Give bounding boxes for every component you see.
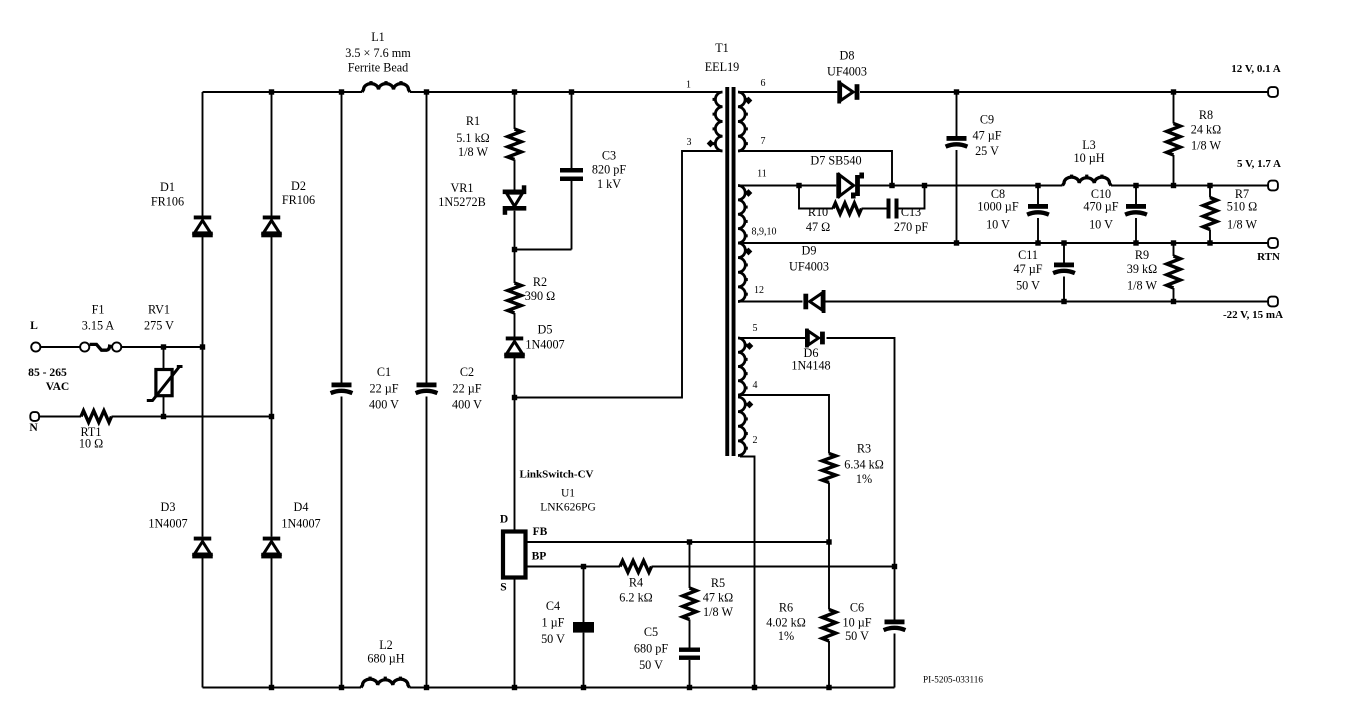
svg-text:24 kΩ: 24 kΩ: [1191, 123, 1221, 137]
svg-text:D8: D8: [840, 49, 855, 63]
wire: [689, 620, 691, 648]
label L2 value: [367, 638, 404, 666]
wire: [1063, 243, 1065, 263]
wire: [827, 338, 895, 620]
svg-text:D: D: [500, 514, 508, 526]
label C3 value: [592, 149, 626, 192]
capacitor C10: [1125, 204, 1147, 215]
svg-text:6.2 kΩ: 6.2 kΩ: [619, 591, 652, 605]
svg-text:5.1 kΩ: 5.1 kΩ: [456, 131, 489, 145]
svg-text:C4: C4: [546, 599, 560, 613]
svg-text:47 Ω: 47 Ω: [806, 220, 830, 234]
svg-text:50 V: 50 V: [1016, 279, 1040, 293]
wire: [1037, 186, 1039, 205]
label R5 value: [703, 576, 734, 619]
svg-text:RV1: RV1: [148, 303, 170, 317]
label U1 name: [520, 469, 594, 481]
resistor R6: [822, 610, 836, 642]
junction: [889, 183, 894, 188]
wire: [515, 249, 572, 251]
IC U1 LNK626PG: [503, 532, 526, 578]
wire: [410, 91, 723, 93]
junction: [922, 183, 927, 188]
label VR1 value: [438, 181, 485, 209]
label F1 value: [82, 303, 115, 333]
diode D8: [837, 81, 859, 104]
capacitor C13: [887, 199, 899, 219]
svg-text:1000 µF: 1000 µF: [977, 200, 1018, 214]
capacitor C4: [573, 622, 594, 633]
svg-text:C2: C2: [460, 365, 474, 379]
junction: [339, 89, 344, 94]
wire: [740, 457, 755, 688]
svg-text:3.5 × 7.6 mm: 3.5 × 7.6 mm: [345, 46, 411, 60]
junction: [339, 685, 344, 690]
wire: [341, 92, 343, 383]
label D4 value: [281, 500, 320, 531]
svg-text:D3: D3: [161, 500, 176, 514]
svg-text:10 V: 10 V: [986, 218, 1010, 232]
label C5 value: [634, 625, 668, 672]
svg-text:22 µF: 22 µF: [369, 382, 398, 396]
junction: [1171, 89, 1176, 94]
label R9 value: [1127, 248, 1158, 293]
svg-text:UF4003: UF4003: [827, 65, 867, 79]
label N terminal: [29, 421, 38, 434]
capacitor C3: [560, 168, 583, 181]
wire: [528, 541, 830, 543]
wire: [1173, 243, 1175, 256]
svg-text:1%: 1%: [856, 472, 872, 486]
svg-text:S: S: [500, 582, 506, 594]
svg-text:1N5272B: 1N5272B: [438, 195, 485, 209]
svg-text:C9: C9: [980, 113, 994, 127]
svg-text:6.34 kΩ: 6.34 kΩ: [844, 458, 884, 472]
junction: [1171, 240, 1176, 245]
wire: [571, 92, 573, 168]
junction: [687, 685, 692, 690]
wire: [202, 237, 204, 537]
label D5 value: [525, 323, 564, 352]
wire: [528, 566, 621, 568]
svg-text:7: 7: [761, 136, 766, 147]
label RT1 value: [79, 425, 103, 451]
svg-text:47 µF: 47 µF: [972, 129, 1001, 143]
svg-text:2: 2: [753, 435, 758, 446]
svg-text:R2: R2: [533, 275, 547, 289]
wire: [1173, 92, 1175, 124]
svg-text:1%: 1%: [778, 629, 794, 643]
wire: [514, 358, 516, 530]
label U1 value: [540, 488, 596, 514]
svg-text:400 V: 400 V: [452, 398, 482, 412]
svg-text:1N4007: 1N4007: [525, 338, 564, 352]
label C1 value: [369, 365, 399, 412]
svg-text:U1: U1: [561, 488, 575, 500]
svg-text:L: L: [30, 319, 38, 332]
label T1 value: [705, 41, 740, 74]
capacitor C8: [1027, 204, 1049, 215]
wire: [202, 92, 204, 216]
svg-text:1/8 W: 1/8 W: [1191, 139, 1221, 153]
label R8 value: [1191, 108, 1222, 153]
label input voltage: [28, 366, 67, 379]
wire: [894, 634, 896, 688]
inductor L3: [1063, 175, 1112, 186]
svg-text:PI-5205-033116: PI-5205-033116: [923, 675, 983, 685]
svg-text:3.15 A: 3.15 A: [82, 319, 115, 333]
terminal N: [30, 412, 39, 421]
fuse F1: [80, 342, 121, 351]
svg-text:R1: R1: [466, 114, 480, 128]
wire: [203, 91, 363, 93]
svg-text:C11: C11: [1018, 248, 1038, 262]
junction: [1171, 299, 1176, 304]
svg-text:R8: R8: [1199, 108, 1213, 122]
label L1 value: [345, 30, 411, 75]
svg-text:L1: L1: [371, 30, 385, 44]
wire: [271, 92, 273, 216]
junction: [512, 247, 517, 252]
svg-text:D1: D1: [160, 180, 175, 194]
junction: [1035, 240, 1040, 245]
resistor R7: [1203, 198, 1217, 230]
svg-text:47 kΩ: 47 kΩ: [703, 591, 733, 605]
capacitor C2: [416, 383, 438, 394]
junction: [1035, 183, 1040, 188]
label D9 value: [789, 244, 829, 274]
svg-text:1/8 W: 1/8 W: [458, 145, 488, 159]
wire: [112, 416, 272, 418]
svg-text:12: 12: [754, 285, 764, 296]
wire: [738, 242, 1268, 244]
svg-text:680 µH: 680 µH: [367, 652, 404, 666]
label output RTN: [1257, 251, 1280, 263]
transformer T1 winding pins 6-7: [738, 92, 748, 151]
junction: [161, 344, 166, 349]
svg-text:N: N: [29, 421, 38, 434]
label RV1 value: [144, 303, 174, 333]
wire: [738, 91, 837, 93]
svg-text:C13: C13: [901, 205, 921, 219]
svg-text:10 µF: 10 µF: [842, 616, 871, 630]
resistor R4: [620, 561, 652, 573]
wire: [1209, 186, 1211, 198]
wire: [583, 633, 585, 688]
svg-text:LinkSwitch-CV: LinkSwitch-CV: [520, 469, 594, 481]
junction: [269, 685, 274, 690]
wire: [426, 92, 428, 383]
wire: [1135, 186, 1137, 205]
svg-text:R10: R10: [808, 205, 828, 219]
label D3 value: [148, 500, 187, 531]
svg-text:4: 4: [753, 380, 758, 391]
label D1 value: [151, 180, 184, 209]
svg-text:R4: R4: [629, 576, 643, 590]
wire: [1209, 230, 1211, 244]
junction: [581, 685, 586, 690]
label output 12V: [1231, 63, 1280, 75]
wire: [1111, 185, 1268, 187]
svg-text:22 µF: 22 µF: [452, 382, 481, 396]
label D6 value: [791, 346, 830, 373]
transformer phase dot: [746, 342, 754, 350]
wire: [1173, 155, 1175, 186]
transformer T1 winding pins 4-2: [738, 397, 748, 456]
diode D3: [192, 537, 213, 559]
svg-text:T1: T1: [715, 41, 729, 55]
junction: [581, 564, 586, 569]
label R1 value: [456, 114, 489, 159]
transformer T1 winding pins 5-4: [738, 338, 748, 395]
junction: [269, 89, 274, 94]
wire: [121, 346, 202, 348]
wire: [689, 542, 691, 588]
thermistor RT1: [81, 411, 112, 423]
junction: [512, 685, 517, 690]
junction: [1133, 240, 1138, 245]
svg-text:F1: F1: [92, 303, 105, 317]
svg-text:1 kV: 1 kV: [597, 177, 621, 191]
resistor R9: [1167, 256, 1181, 288]
resistor R3: [822, 454, 836, 483]
wire: [1173, 288, 1175, 302]
label R7 value: [1227, 187, 1258, 232]
wire: [515, 151, 723, 398]
wire: [514, 580, 516, 688]
svg-text:VR1: VR1: [450, 181, 473, 195]
svg-text:85 - 265: 85 - 265: [28, 366, 67, 379]
svg-text:FR106: FR106: [282, 193, 315, 207]
wire: [271, 237, 273, 537]
svg-text:VAC: VAC: [46, 380, 70, 393]
label L terminal: [30, 319, 38, 332]
wire: [271, 558, 273, 688]
wire: [426, 397, 428, 688]
transformer phase dot: [745, 97, 753, 105]
diode D7: [836, 173, 864, 199]
svg-text:Ferrite Bead: Ferrite Bead: [348, 61, 409, 75]
wire: [39, 416, 81, 418]
label C13 value: [894, 205, 928, 234]
svg-text:RTN: RTN: [1257, 251, 1280, 263]
wire: [956, 150, 958, 243]
label output 5V: [1237, 158, 1281, 170]
svg-text:50 V: 50 V: [541, 632, 565, 646]
svg-text:12 V, 0.1 A: 12 V, 0.1 A: [1231, 63, 1280, 75]
wire: [862, 208, 887, 210]
label R4 value: [619, 576, 652, 605]
label D2 value: [282, 179, 315, 207]
svg-text:LNK626PG: LNK626PG: [540, 502, 596, 514]
svg-text:D4: D4: [294, 500, 309, 514]
wire: [40, 346, 80, 348]
junction: [1133, 183, 1138, 188]
resistor R2: [508, 283, 522, 313]
wire: [689, 660, 691, 688]
label C11 value: [1013, 248, 1042, 293]
wire: [738, 337, 805, 339]
transformer T1 primary winding pins 1-3: [713, 92, 723, 151]
junction: [512, 395, 517, 400]
svg-text:-22 V, 15 mA: -22 V, 15 mA: [1223, 309, 1283, 321]
diode D1: [192, 216, 213, 238]
label L3 value: [1073, 138, 1104, 165]
capacitor C11: [1053, 263, 1075, 274]
wire: [956, 92, 958, 136]
wire: [738, 301, 803, 303]
wire: [571, 181, 573, 250]
svg-text:C6: C6: [850, 601, 864, 615]
capacitor C9: [946, 136, 968, 147]
svg-text:1/8 W: 1/8 W: [1227, 218, 1257, 232]
label D8 value: [827, 49, 867, 79]
wire: [514, 211, 516, 283]
zener diode VR1: [503, 185, 527, 214]
resistor R5: [683, 588, 697, 620]
junction: [826, 685, 831, 690]
svg-text:3: 3: [687, 137, 692, 148]
transformer T1 winding pins 8,9,10-12: [738, 243, 748, 302]
svg-text:R5: R5: [711, 576, 725, 590]
wire: [828, 483, 830, 610]
svg-text:10 Ω: 10 Ω: [79, 437, 103, 451]
junction: [1061, 299, 1066, 304]
svg-text:R9: R9: [1135, 248, 1149, 262]
terminal RTN: [1268, 238, 1278, 248]
terminal 12V: [1268, 87, 1278, 97]
junction: [1207, 183, 1212, 188]
svg-text:1N4007: 1N4007: [281, 517, 320, 531]
junction: [954, 240, 959, 245]
transformer phase dot: [745, 248, 753, 256]
svg-text:1/8 W: 1/8 W: [703, 605, 733, 619]
label R2 value: [525, 275, 555, 303]
label C8 value: [977, 187, 1018, 232]
wire: [341, 397, 343, 688]
junction: [687, 539, 692, 544]
wire: [860, 91, 1268, 93]
label C10 value: [1083, 187, 1118, 232]
inductor L1: [362, 81, 410, 92]
svg-text:680 pF: 680 pF: [634, 642, 668, 656]
wire: [202, 558, 204, 688]
svg-text:1 µF: 1 µF: [542, 616, 565, 630]
svg-text:D5: D5: [538, 323, 553, 337]
label D7 value: [810, 154, 861, 168]
junction: [752, 685, 757, 690]
transformer T1 winding pins 11-8,9,10: [738, 186, 748, 244]
svg-text:510 Ω: 510 Ω: [1227, 200, 1257, 214]
svg-text:50 V: 50 V: [639, 658, 663, 672]
wire: [514, 92, 516, 129]
wire: [410, 687, 895, 689]
svg-text:5 V, 1.7 A: 5 V, 1.7 A: [1237, 158, 1281, 170]
inductor L2: [361, 677, 410, 688]
svg-text:5: 5: [753, 323, 758, 334]
label R6 value: [766, 601, 806, 644]
svg-text:BP: BP: [532, 551, 547, 563]
wire: [1063, 277, 1065, 302]
junction: [200, 344, 205, 349]
svg-text:10 µH: 10 µH: [1073, 151, 1104, 165]
transformer phase dot: [746, 401, 754, 409]
diode D2: [261, 216, 282, 238]
svg-text:4.02 kΩ: 4.02 kΩ: [766, 616, 806, 630]
wire: [859, 185, 1063, 187]
svg-text:10 V: 10 V: [1089, 218, 1113, 232]
svg-text:470 µF: 470 µF: [1083, 200, 1118, 214]
wire: [1135, 218, 1137, 243]
terminal 5V: [1268, 181, 1278, 191]
svg-text:C3: C3: [602, 149, 616, 163]
label C6 value: [842, 601, 871, 644]
svg-text:D7 SB540: D7 SB540: [810, 154, 861, 168]
wire: [583, 567, 585, 623]
transformer phase dot: [745, 189, 753, 197]
svg-text:C1: C1: [377, 365, 391, 379]
label C4 value: [541, 599, 565, 646]
svg-text:11: 11: [757, 169, 767, 180]
wire: [652, 566, 895, 568]
wire: [899, 186, 925, 209]
transformer phase dot: [707, 140, 715, 148]
junction: [1207, 240, 1212, 245]
junction: [161, 414, 166, 419]
terminal L: [31, 342, 40, 351]
svg-text:FR106: FR106: [151, 195, 184, 209]
junction: [424, 89, 429, 94]
wire: [163, 397, 165, 417]
svg-text:EEL19: EEL19: [705, 60, 740, 74]
label R10 value: [806, 205, 830, 234]
svg-text:8,9,10: 8,9,10: [752, 227, 777, 238]
capacitor C1: [331, 383, 353, 394]
diode D5: [504, 337, 525, 359]
junction: [269, 414, 274, 419]
terminal -22V: [1268, 297, 1278, 307]
wire: [163, 347, 165, 369]
svg-text:R3: R3: [857, 442, 871, 456]
svg-text:C5: C5: [644, 625, 658, 639]
junction: [512, 89, 517, 94]
wire: [738, 151, 892, 186]
junction: [954, 89, 959, 94]
svg-text:820 pF: 820 pF: [592, 163, 626, 177]
junction: [1061, 240, 1066, 245]
svg-text:270 pF: 270 pF: [894, 220, 928, 234]
svg-text:400 V: 400 V: [369, 398, 399, 412]
svg-text:6: 6: [761, 78, 766, 89]
diode D4: [261, 537, 282, 559]
svg-text:1N4148: 1N4148: [791, 359, 830, 373]
label C9 value: [972, 113, 1001, 159]
junction: [569, 89, 574, 94]
capacitor C5: [679, 648, 700, 660]
svg-text:50 V: 50 V: [845, 629, 869, 643]
junction: [424, 685, 429, 690]
junction: [1171, 183, 1176, 188]
svg-text:1N4007: 1N4007: [148, 517, 187, 531]
capacitor C6: [884, 620, 906, 631]
svg-text:39 kΩ: 39 kΩ: [1127, 262, 1157, 276]
wire: [1037, 218, 1039, 243]
label C2 value: [452, 365, 482, 412]
svg-text:L3: L3: [1082, 138, 1096, 152]
svg-text:D2: D2: [291, 179, 306, 193]
wire: [514, 313, 516, 337]
diode D9: [803, 290, 825, 313]
